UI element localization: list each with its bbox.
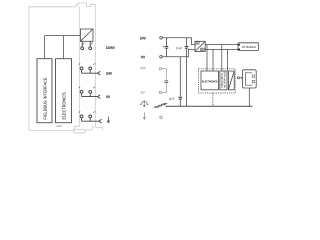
dashed module box [198, 69, 235, 93]
bus coupler housing outline [29, 3, 102, 133]
label 24V [106, 72, 112, 75]
fieldbus module label 1 [221, 73, 223, 87]
connector node [237, 77, 239, 79]
contact row 4 (earth) [79, 111, 99, 121]
connector wire [240, 77, 242, 79]
I/O modules box [238, 43, 259, 51]
DC label top [196, 42, 199, 43]
label 10nF [169, 98, 175, 100]
capacitor C1 electrolytic [165, 38, 169, 57]
label 24V field [140, 67, 146, 70]
capacitor C2 [185, 38, 189, 57]
fieldbus module label 2 [224, 71, 226, 87]
cage clamp row 4 (earth) [99, 119, 102, 123]
label I/O Modules [242, 46, 256, 48]
field 24V hook wire [162, 69, 167, 81]
plus sign field cap [169, 81, 170, 82]
part number 750-342 [56, 125, 62, 127]
0V output rail [205, 48, 238, 50]
field filter capacitor [165, 81, 169, 83]
electronics block [56, 59, 72, 123]
terminal 0V [160, 56, 163, 59]
wire blocks to dc/dc [45, 36, 81, 59]
label 10uF [176, 47, 182, 49]
contact row 2 (24V) [79, 63, 98, 73]
contact row 3 (0V) [79, 87, 98, 97]
electronics label [62, 93, 65, 120]
earth rail [166, 105, 253, 107]
24V rail [162, 38, 195, 45]
DIN rail symbol [153, 102, 168, 108]
terminal 0V field [159, 91, 161, 93]
bus continuation element [228, 71, 234, 90]
DC label bottom [201, 49, 204, 50]
wire 0V to earth rail [186, 57, 188, 106]
power jumper contacts row 1 [81, 41, 93, 49]
cage clamp row 3 (0V) [98, 95, 101, 99]
label 24V/0V [106, 46, 115, 49]
electronics module label [202, 81, 217, 83]
end module earth wire [248, 88, 250, 106]
end module box [243, 70, 257, 88]
dashed earth drop [212, 93, 214, 106]
label 24V system [140, 37, 146, 40]
field 0V hook wire [162, 83, 167, 93]
dc/dc converter U2 [195, 41, 205, 51]
functional earth arrow (coupler) [107, 117, 110, 123]
label 0V system [141, 56, 145, 59]
plus sign C1 [163, 46, 165, 48]
label 0V field [141, 91, 145, 94]
earth screw symbol [140, 100, 149, 107]
bus drops to module [207, 45, 227, 71]
gray node circle [160, 116, 163, 119]
label 0V [106, 95, 110, 98]
fieldbus interface label [44, 78, 47, 120]
electronics block (module) [201, 71, 219, 90]
5V output rail [205, 44, 238, 46]
terminal 24V field [159, 68, 161, 70]
dc/dc converter (coupler) [80, 29, 93, 41]
0V rail [162, 49, 195, 56]
gray earth arrow [143, 112, 146, 120]
capacitor 10nF [179, 57, 183, 106]
fieldbus interface block [37, 59, 52, 123]
cage clamp row 2 (24V) [98, 71, 101, 75]
terminal 24V [160, 37, 163, 40]
fieldbus interface block (module) [220, 71, 227, 90]
